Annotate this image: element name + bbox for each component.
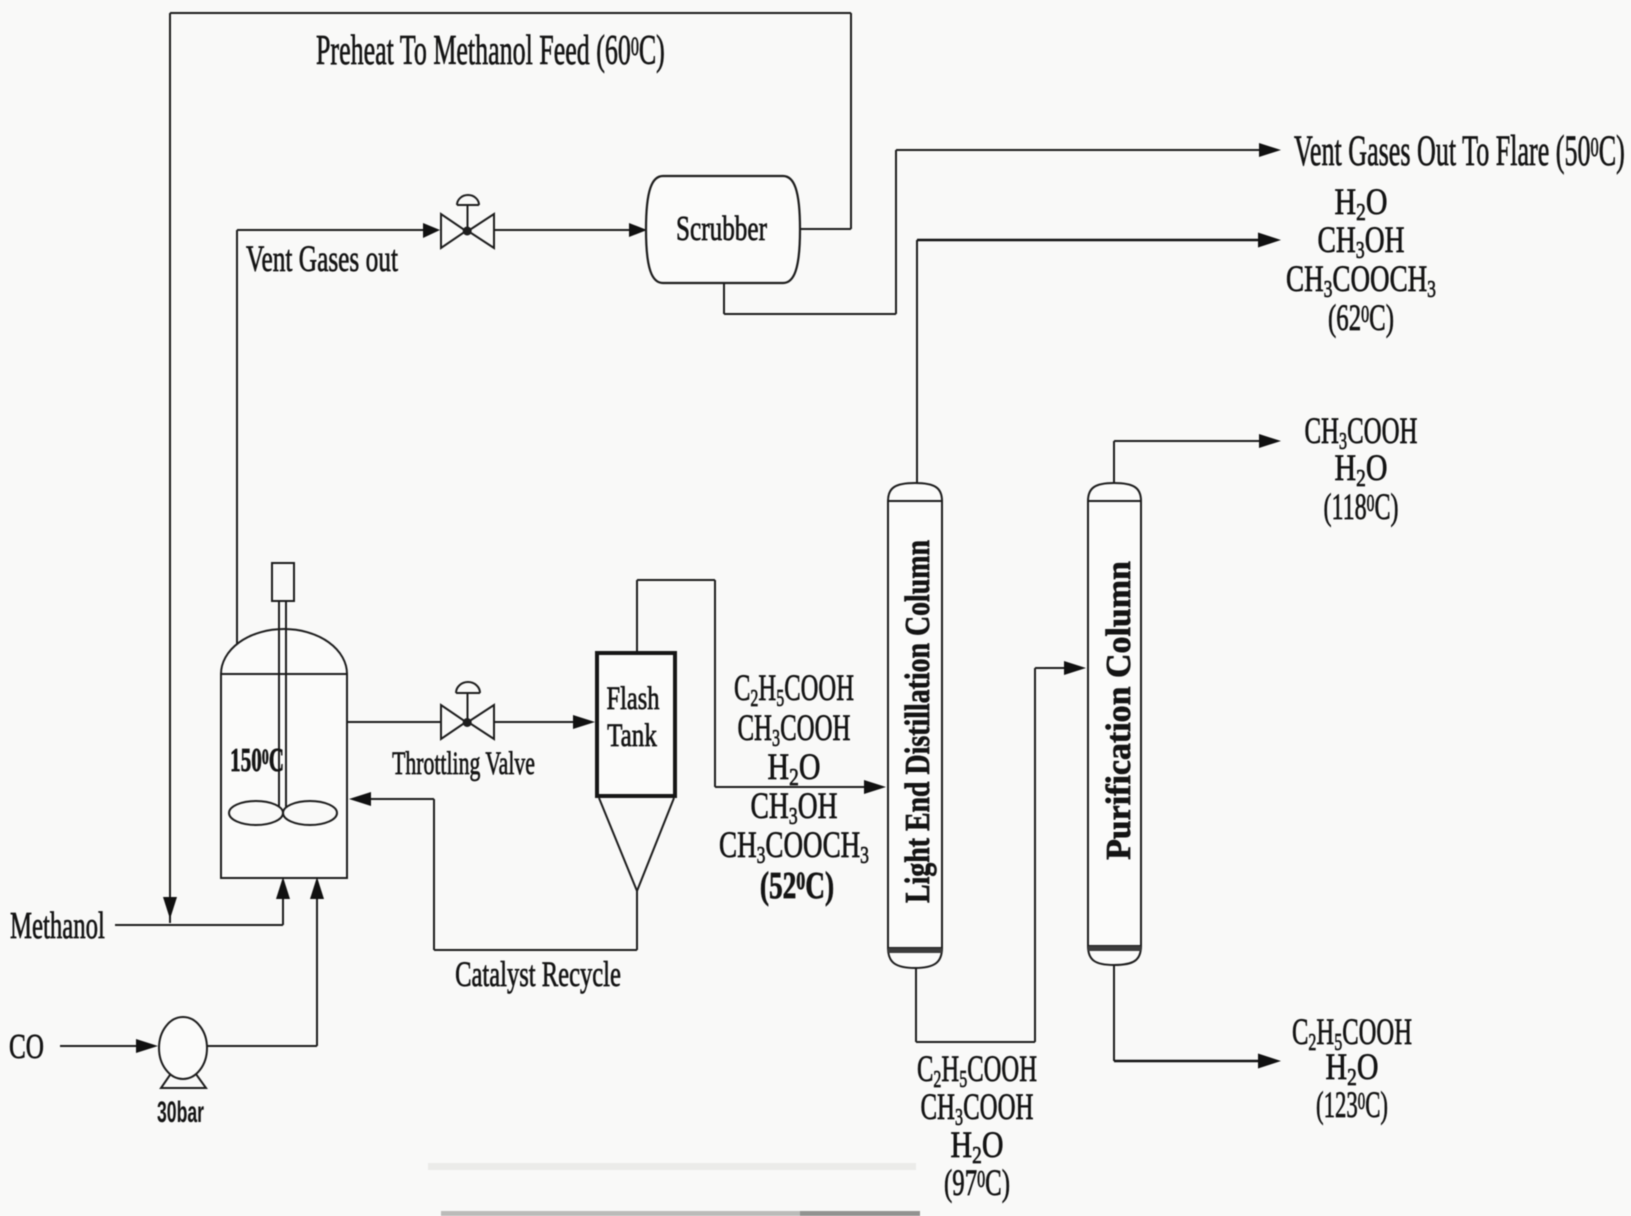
arrow: methanol into reactor xyxy=(276,877,290,899)
svg-text:CH3COOCH3: CH3COOCH3 xyxy=(719,825,869,869)
svg-text:Light End Distillation Column: Light End Distillation Column xyxy=(898,540,937,903)
pump base xyxy=(161,1056,206,1088)
wire: flare line xyxy=(896,149,1259,151)
valve V2 (throttling valve) xyxy=(441,682,494,739)
wire: flash overhead down leg xyxy=(714,580,716,787)
wire: scrubber bottoms pipe xyxy=(723,283,725,314)
light end distillation column top cap xyxy=(888,483,942,501)
svg-text:(970C): (970C) xyxy=(944,1162,1010,1203)
pump body xyxy=(159,1017,207,1079)
svg-text:Purification Column: Purification Column xyxy=(1100,561,1139,860)
wire: flash tank overhead riser xyxy=(636,580,638,651)
wire: reactor outlet to throttling valve xyxy=(347,721,441,723)
wire: scrubber right connector xyxy=(798,228,851,230)
purification column bottom cap xyxy=(1088,946,1141,965)
wire: methanol feed line xyxy=(115,924,283,926)
wire: methanol feed riser xyxy=(282,899,284,925)
wire: preheat recycle left vertical xyxy=(169,13,171,923)
svg-text:1500C: 1500C xyxy=(230,742,284,779)
wire: catalyst recycle bottom horizontal xyxy=(434,949,637,951)
scan artifact: dark remnant bottom xyxy=(800,1211,920,1216)
scan artifact: faint erased caption band xyxy=(428,1163,916,1170)
wire: column overhead product riser xyxy=(916,240,918,484)
svg-text:Catalyst Recycle: Catalyst Recycle xyxy=(455,954,621,994)
wire: purification overhead line (118C) xyxy=(1114,440,1259,442)
reactor agitator motor xyxy=(272,563,294,601)
wire: scrubber bottoms horizontal xyxy=(724,313,896,315)
wire: purification bottoms pipe xyxy=(1113,965,1115,1061)
wire: catalyst recycle riser xyxy=(433,799,435,950)
wire: purification bottoms line (123C) xyxy=(1114,1060,1258,1063)
wire: purification feed riser xyxy=(1034,668,1036,1042)
arrow: overhead product xyxy=(1258,233,1281,248)
wire: purification feed line xyxy=(1035,667,1064,669)
reactor impeller left xyxy=(229,801,283,825)
wire: flash overhead horizontal top xyxy=(637,579,715,581)
svg-text:(1230C): (1230C) xyxy=(1316,1084,1388,1125)
arrow: 118C product xyxy=(1259,434,1281,448)
arrow: to flare xyxy=(1259,143,1281,157)
arrow: CO into reactor xyxy=(310,877,324,899)
purification column bottom chord band xyxy=(1088,946,1141,951)
arrow: into light end column xyxy=(864,780,886,794)
svg-text:(620C): (620C) xyxy=(1328,297,1394,338)
purification column top cap xyxy=(1088,483,1141,501)
light end distillation column body xyxy=(888,501,942,948)
arrow: into reactor wall xyxy=(349,792,371,806)
reactor agitator shaft xyxy=(279,601,286,816)
arrow: into vent valve xyxy=(423,223,440,238)
svg-text:Scrubber: Scrubber xyxy=(676,209,767,248)
wire: overhead product line (62C) xyxy=(917,239,1258,242)
svg-text:(1180C): (1180C) xyxy=(1323,486,1398,528)
svg-text:CH3COOH: CH3COOH xyxy=(1304,410,1417,455)
reactor body xyxy=(221,674,347,878)
wire: CO feed line xyxy=(60,1045,136,1047)
valve V1 (vent gas valve) xyxy=(441,195,494,248)
svg-text:Tank: Tank xyxy=(607,718,657,754)
light end distillation column bottom cap xyxy=(888,948,942,968)
wire: scrubber outlet right vertical xyxy=(850,13,852,229)
arrow: 123C product xyxy=(1258,1054,1281,1069)
flash tank cone xyxy=(599,798,674,891)
svg-text:Throttling Valve: Throttling Valve xyxy=(392,746,535,783)
svg-text:Flash: Flash xyxy=(607,681,660,717)
flash tank vessel xyxy=(597,653,675,796)
arrow: preheat down into methanol line xyxy=(163,897,177,919)
wire: preheat recycle top horizontal xyxy=(170,12,851,14)
svg-text:Methanol: Methanol xyxy=(10,904,105,947)
svg-text:CH3COOH: CH3COOH xyxy=(737,707,850,752)
arrow: into flash tank xyxy=(573,715,595,729)
arrow: CO into pump xyxy=(136,1039,158,1053)
wire: vent gases vertical from reactor dome xyxy=(236,230,238,645)
reactor dome xyxy=(221,629,347,674)
wire: purification overhead riser xyxy=(1113,441,1115,483)
svg-text:Vent Gases out: Vent Gases out xyxy=(246,238,398,279)
arrow: into purification column xyxy=(1064,661,1086,675)
purification column body xyxy=(1088,501,1141,946)
wire: vent gases horizontal to valve xyxy=(237,229,436,231)
wire: flare riser xyxy=(895,150,897,314)
wire: feed to light end column xyxy=(715,786,864,788)
wire: light end bottoms pipe xyxy=(915,968,917,1042)
wire: catalyst recycle return to reactor xyxy=(371,798,434,800)
light end column bottom chord band xyxy=(888,948,942,953)
wire: catalyst recycle drop xyxy=(636,891,638,950)
wire: throttling valve to flash tank xyxy=(494,721,573,723)
scrubber vessel xyxy=(646,176,800,283)
wire: light end bottoms horizontal xyxy=(916,1041,1035,1043)
svg-text:CO: CO xyxy=(9,1027,44,1066)
svg-text:Preheat To Methanol Feed (600C: Preheat To Methanol Feed (600C) xyxy=(316,27,665,74)
wire: valve to scrubber xyxy=(494,229,643,231)
scan artifact: caption underline remnant xyxy=(441,1211,920,1216)
svg-text:30bar: 30bar xyxy=(157,1096,204,1129)
wire: CO riser to reactor xyxy=(316,899,318,1046)
svg-text:CH3COOH: CH3COOH xyxy=(920,1086,1033,1131)
reactor impeller right xyxy=(283,801,337,825)
wire: pump discharge xyxy=(207,1045,317,1047)
svg-text:Vent Gases Out To Flare (500C): Vent Gases Out To Flare (500C) xyxy=(1294,126,1625,174)
arrow: into scrubber xyxy=(629,223,647,237)
